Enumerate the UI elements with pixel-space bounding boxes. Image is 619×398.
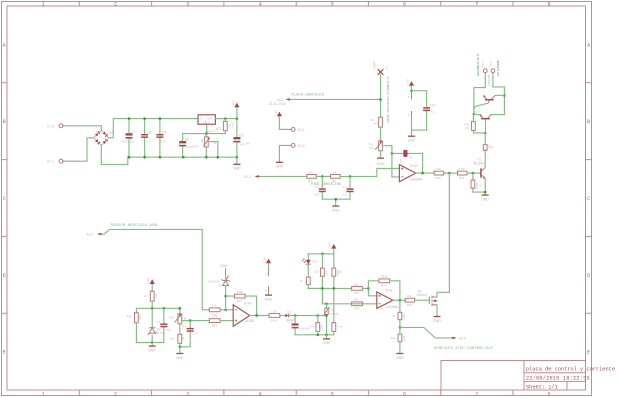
- svg-text:10k: 10k: [332, 170, 337, 174]
- svg-text:GND: GND: [396, 356, 404, 360]
- svg-text:R23: R23: [354, 307, 360, 311]
- svg-text:C12: C12: [429, 104, 435, 108]
- mosfet Q1 VND920: [416, 289, 438, 307]
- trimmer R5 10k sensor: [169, 308, 187, 324]
- capacitor C10: [314, 176, 326, 199]
- title block outline: [441, 361, 586, 391]
- svg-text:R10: R10: [435, 176, 441, 180]
- +12V supply arrow opamp power: [405, 79, 414, 93]
- svg-text:0.1: 0.1: [315, 185, 320, 189]
- transistor T1 BC547: [474, 157, 486, 179]
- resistor R10 2.2k: [434, 167, 444, 180]
- connector pad X1-1: [47, 159, 66, 163]
- junction C8 top: [143, 117, 146, 120]
- junction R7 gnd: [179, 346, 182, 349]
- junction emitter gnd: [484, 191, 487, 194]
- BOTTOMLEFT: [86, 224, 295, 360]
- svg-text:240: 240: [231, 123, 235, 128]
- svg-text:R18: R18: [336, 271, 340, 277]
- svg-text:+12V: +12V: [146, 277, 150, 284]
- capacitor C12 bypass: [412, 91, 436, 130]
- svg-text:E: E: [3, 350, 6, 356]
- svg-text:17k: 17k: [212, 304, 217, 308]
- +12V supply arrow comparator block: [328, 242, 337, 268]
- svg-text:GND: GND: [377, 162, 385, 166]
- wire R3 to R6: [316, 175, 330, 177]
- svg-text:IC2A: IC2A: [410, 164, 418, 168]
- svg-text:VND920: VND920: [416, 293, 428, 297]
- svg-text:Q3: Q3: [476, 110, 480, 114]
- svg-text:22-23-2041: 22-23-2041: [269, 102, 286, 106]
- svg-text:placa de control y corriente: placa de control y corriente: [526, 367, 615, 373]
- svg-text:1k: 1k: [144, 294, 148, 298]
- svg-text:1: 1: [42, 391, 45, 397]
- svg-text:1k: 1k: [478, 184, 482, 188]
- junction mid column top: [321, 253, 324, 256]
- svg-text:R26: R26: [402, 336, 406, 342]
- junction thermistor bottom: [325, 314, 328, 317]
- resistor R16 2.2k: [269, 309, 280, 322]
- led optocoupler left branch: [302, 254, 318, 277]
- junction Q2 collector node: [503, 94, 506, 97]
- series diode on feedback: [392, 150, 423, 163]
- svg-text:X3-1: X3-1: [298, 128, 305, 132]
- svg-text:R12: R12: [459, 176, 465, 180]
- node row from D1: [295, 315, 326, 317]
- wire feedback riser: [368, 281, 379, 289]
- wire R8 to ground: [380, 151, 382, 158]
- junction C9 bottom: [159, 156, 162, 159]
- thermistor KT103: [323, 304, 339, 335]
- wire R7 to R8: [380, 127, 382, 141]
- svg-text:GND: GND: [408, 139, 416, 143]
- wire mosfet drain: [437, 292, 449, 297]
- +12V supply arrow sensor block: [146, 277, 155, 291]
- svg-text:2.2k: 2.2k: [435, 167, 441, 171]
- junction X2-1 tee: [379, 98, 382, 101]
- svg-text:6: 6: [403, 2, 406, 8]
- svg-text:GND: GND: [220, 264, 228, 268]
- wire trimmer wiper row: [182, 320, 210, 322]
- wire R12 to T1 base: [467, 172, 480, 174]
- svg-text:OK1: OK1: [312, 260, 318, 264]
- resistor R19 10k to +input: [352, 282, 363, 295]
- resistor mid divider 10k: [314, 254, 328, 304]
- svg-text:C9: C9: [162, 131, 166, 135]
- op-amp IC2B LM358N: [377, 288, 400, 309]
- resistor R11 220: [465, 122, 476, 131]
- svg-text:R25: R25: [402, 314, 406, 320]
- junction C8 bottom: [143, 156, 146, 159]
- IC2P power pin V-: [408, 111, 412, 118]
- svg-text:10k: 10k: [391, 336, 396, 340]
- wire Q2 collector to right riser: [495, 94, 504, 96]
- junction X2-4 tap: [399, 326, 402, 329]
- wire R4 to sensor rail: [151, 301, 153, 308]
- wire opamp output: [416, 172, 434, 174]
- IC2P power pin V+: [408, 93, 412, 100]
- junction feedback left: [367, 287, 370, 290]
- wire IC1A output: [250, 315, 269, 317]
- svg-text:10u(16): 10u(16): [299, 327, 309, 331]
- capacitor C5 electrolytic: [179, 134, 198, 158]
- ground symbol comparator block: [323, 335, 331, 345]
- junction D1 node: [294, 314, 297, 317]
- transistor Q3 lower PNP: [476, 110, 492, 122]
- junction Q stage bottom: [484, 132, 487, 135]
- wire X5-1 to Q2 emitter: [474, 73, 485, 114]
- junction C10 top: [321, 175, 324, 178]
- svg-text:GND: GND: [323, 341, 331, 345]
- wire Q3 emitter to Q1 node: [474, 114, 480, 116]
- wire X1-1 to bridge left: [66, 138, 94, 161]
- svg-text:10k: 10k: [314, 270, 319, 274]
- TOPRIGHT: [399, 52, 505, 292]
- sensor block top rail: [136, 307, 179, 309]
- svg-text:pide_servicio_aliment.V: pide_servicio_aliment.V: [386, 76, 391, 123]
- svg-text:C8: C8: [147, 131, 151, 135]
- svg-text:0.1: 0.1: [156, 320, 161, 324]
- svg-text:2.2k: 2.2k: [459, 167, 465, 171]
- resistor R15 1.7k: [209, 315, 220, 328]
- wire X2-1 to divider: [291, 98, 381, 100]
- junction TL431 gnd: [151, 341, 154, 344]
- svg-text:+12V: +12V: [273, 109, 277, 116]
- svg-text:A: A: [587, 42, 590, 48]
- wire T1 collector up: [484, 150, 486, 167]
- wire 0V rail: [129, 156, 237, 158]
- svg-text:1N: 1N: [409, 156, 413, 160]
- svg-text:D3: D3: [399, 159, 403, 163]
- MIDDLE: [244, 60, 423, 212]
- svg-text:LM358: LM358: [244, 319, 254, 323]
- resistor right divider 10k: [332, 268, 342, 323]
- svg-text:C6: C6: [239, 134, 243, 138]
- svg-text:B: B: [3, 119, 6, 125]
- TITLEBLOCK: [441, 361, 615, 391]
- wire diode node to opamp output junction: [422, 153, 424, 173]
- svg-text:X2-3: X2-3: [244, 175, 251, 179]
- wire IC2B output: [393, 299, 405, 301]
- svg-text:C16: C16: [218, 284, 224, 288]
- svg-text:GND: GND: [265, 297, 273, 301]
- ground symbol mosfet: [433, 317, 441, 323]
- resistor R7 10k: [370, 117, 382, 127]
- svg-text:Sheet: 1/1: Sheet: 1/1: [526, 384, 558, 390]
- frame row ticks left: [2, 83, 8, 313]
- svg-text:R17: R17: [324, 271, 328, 277]
- svg-text:+12V: +12V: [262, 257, 266, 264]
- junction inverting node: [224, 309, 227, 312]
- connector pin X2-2: [86, 233, 103, 237]
- svg-text:IC4A: IC4A: [244, 302, 252, 306]
- wire zener to feedback node: [225, 286, 227, 310]
- junction C13 rail: [163, 307, 166, 310]
- wire X5-2 to Q2 collector: [491, 73, 504, 115]
- svg-text:C11: C11: [342, 193, 348, 197]
- +12V supply arrow X3: [273, 109, 282, 129]
- wire bridge right to +rail: [109, 119, 129, 138]
- wire R9 top to Q stage: [484, 133, 486, 145]
- junction opamp vcc: [410, 89, 413, 92]
- svg-text:7: 7: [475, 2, 478, 8]
- junction C5 bottom rail: [182, 156, 185, 159]
- op-amp IC1A LM358: [233, 302, 254, 327]
- svg-text:5: 5: [331, 391, 334, 397]
- voltage regulator IC3 LM317: [198, 115, 222, 134]
- svg-text:4.7k: 4.7k: [337, 325, 343, 329]
- svg-text:10k: 10k: [354, 298, 359, 302]
- wire R6 to opamp riser: [340, 169, 399, 177]
- svg-text:vcc pulsante: vcc pulsante: [496, 59, 501, 77]
- capacitor C15 electrolytic: [287, 316, 310, 335]
- svg-text:HERCULES_STEP_CONTROL/OUT: HERCULES_STEP_CONTROL/OUT: [434, 346, 494, 351]
- svg-text:GND: GND: [276, 165, 284, 169]
- wire Q1 base curve: [474, 103, 488, 114]
- resistor R left branch 22k: [127, 308, 153, 342]
- junction bottom rail Ra: [317, 334, 320, 337]
- svg-text:2: 2: [114, 2, 117, 8]
- svg-text:R15: R15: [212, 323, 218, 327]
- resistor R26 10k to ground: [391, 327, 406, 353]
- svg-text:C5: C5: [185, 138, 189, 142]
- ground symbol IC1 power: [265, 293, 273, 302]
- frame column numbers top: [42, 2, 551, 8]
- svg-text:1k: 1k: [491, 146, 495, 150]
- svg-text:BC547: BC547: [474, 161, 484, 165]
- shunt reference D2 TL431: [148, 308, 166, 342]
- diode D1 BAT43: [285, 310, 295, 322]
- svg-text:R7: R7: [374, 122, 378, 126]
- resistor R25 1k below output: [392, 300, 406, 327]
- ground symbol trimmer branch: [176, 347, 184, 360]
- svg-text:D1: D1: [287, 310, 291, 314]
- svg-text:R21: R21: [237, 299, 243, 303]
- resistor R9 collector: [483, 145, 494, 151]
- svg-text:10k: 10k: [308, 170, 313, 174]
- resistor R14 17k: [209, 304, 220, 317]
- wire R2 wiper to rail: [208, 142, 218, 158]
- svg-text:0.1: 0.1: [146, 140, 151, 144]
- svg-text:para base de los tr.: para base de los tr.: [476, 52, 481, 76]
- comparator mid rail: [308, 287, 351, 289]
- wire X2-3 to R3: [259, 175, 306, 177]
- resistor R21 300k feedback: [234, 290, 245, 303]
- svg-text:22k: 22k: [127, 314, 132, 318]
- wire X3-2 to ground: [279, 145, 289, 162]
- wire R16 to D1: [280, 315, 285, 317]
- svg-text:R20: R20: [381, 284, 387, 288]
- wire R10 to R12: [444, 172, 458, 174]
- title block row lines: [524, 373, 586, 390]
- svg-text:C7: C7: [131, 130, 135, 134]
- op-amp IC2A LM358N: [399, 164, 422, 182]
- svg-text:2.2k: 2.2k: [271, 309, 277, 313]
- frame row ticks right: [586, 83, 592, 313]
- svg-text:GND: GND: [233, 167, 241, 171]
- junction rail right corner: [179, 307, 182, 310]
- wire feedback row: [226, 296, 257, 315]
- junction OUT-R1: [224, 117, 227, 120]
- svg-text:10k: 10k: [170, 337, 175, 341]
- resistor R1 240: [223, 119, 234, 134]
- wire T1 emitter to ground: [484, 179, 486, 195]
- svg-text:0.1: 0.1: [343, 185, 348, 189]
- junction output node: [399, 299, 402, 302]
- wire to X2-4: [400, 327, 453, 338]
- BOTTOMCENTER: [287, 242, 494, 360]
- GND net pin above zener: [220, 264, 228, 280]
- wire R15 to noninverting input: [220, 320, 233, 322]
- svg-text:4: 4: [258, 391, 261, 397]
- capacitor C8: [141, 119, 151, 158]
- capacitor C9: [156, 119, 166, 158]
- svg-text:220: 220: [465, 126, 470, 130]
- svg-text:D: D: [3, 273, 6, 279]
- junction R2 bottom: [205, 156, 208, 159]
- trimmer R2: [200, 134, 217, 158]
- svg-text:5: 5: [331, 2, 334, 8]
- comparator bottom rail: [295, 334, 334, 336]
- svg-text:LM358N: LM358N: [386, 305, 399, 309]
- svg-text:KT103: KT103: [330, 312, 339, 316]
- wire R11 top to Q1 node: [472, 114, 474, 122]
- svg-text:560k: 560k: [381, 275, 388, 279]
- junction feedback tee: [224, 295, 227, 298]
- junction mid rail left: [321, 287, 324, 290]
- wire R24 to mosfet gate: [415, 299, 430, 301]
- ground symbol X3: [276, 162, 284, 168]
- resistor R24 10k gate: [405, 294, 415, 307]
- +12V supply arrow at regulator output: [231, 100, 240, 118]
- connector pad X3-1: [289, 127, 305, 132]
- svg-text:1: 1: [42, 2, 45, 8]
- svg-text:SENSOR_HERCULES_AMB: SENSOR_HERCULES_AMB: [111, 224, 158, 228]
- ground symbol below R26: [396, 354, 404, 360]
- svg-text:X2-2: X2-2: [86, 233, 93, 237]
- resistor R6 10k: [331, 170, 341, 183]
- svg-text:ADJ: ADJ: [203, 121, 209, 125]
- resistor R20 560k feedback: [379, 275, 390, 288]
- capacitor C14: [180, 321, 199, 347]
- svg-text:R7: R7: [182, 337, 186, 341]
- svg-text:10k: 10k: [369, 146, 374, 150]
- svg-text:1k: 1k: [392, 314, 396, 318]
- wire +rail: [129, 118, 198, 120]
- wire ADJ row: [183, 133, 226, 135]
- wire feedback to output: [390, 281, 400, 300]
- resistor R12 2.2k: [458, 167, 468, 180]
- junction wiper rail: [217, 156, 220, 159]
- ground symbol sensor block: [148, 343, 156, 353]
- resistor below trimmer 10k: [170, 324, 186, 347]
- svg-text:GND: GND: [481, 197, 489, 201]
- svg-text:X1-1: X1-1: [47, 160, 54, 164]
- svg-text:C14: C14: [193, 332, 199, 336]
- svg-text:PLACA_HERCULES: PLACA_HERCULES: [292, 94, 325, 98]
- svg-text:C13: C13: [166, 328, 172, 332]
- svg-text:GND: GND: [176, 356, 184, 360]
- connector pin X2-4: [451, 336, 466, 340]
- svg-text:0.1: 0.1: [430, 109, 435, 113]
- capacitor C11: [342, 176, 353, 199]
- resistor R13 base-emitter: [471, 173, 485, 192]
- long wire down to mosfet drain: [448, 173, 450, 292]
- junction C7 bottom: [128, 156, 131, 159]
- junction output feedback: [255, 314, 258, 317]
- svg-text:LM358N: LM358N: [410, 178, 423, 182]
- svg-text:1k: 1k: [300, 279, 304, 283]
- svg-text:R5: R5: [138, 316, 142, 320]
- capacitor C7: [122, 119, 135, 158]
- svg-text:1.7k: 1.7k: [212, 315, 218, 319]
- junction wiper node: [391, 152, 394, 155]
- transistor Q2 upper PNP: [477, 95, 495, 109]
- ground symbol opamp power: [408, 130, 416, 142]
- IC1P power pin V-: [265, 287, 269, 293]
- svg-text:0.01: 0.01: [161, 140, 167, 144]
- svg-text:300k: 300k: [236, 290, 243, 294]
- svg-text:10k: 10k: [354, 282, 359, 286]
- svg-text:X5-1: X5-1: [481, 61, 485, 68]
- trimmer R8 10k: [369, 141, 383, 151]
- comparator ref rail: [322, 303, 376, 305]
- capacitor C6 electrolytic: [233, 119, 249, 158]
- svg-text:GND: GND: [332, 208, 340, 212]
- wire ADJ pin down: [206, 128, 208, 134]
- frame column ticks bottom: [79, 390, 513, 396]
- svg-text:3: 3: [186, 2, 189, 8]
- junction Q1 node: [473, 113, 476, 116]
- solder jumper X on divider top: [373, 60, 389, 75]
- svg-text:E: E: [587, 350, 590, 356]
- svg-text:GND: GND: [433, 319, 441, 323]
- svg-text:8: 8: [548, 2, 551, 8]
- svg-text:MBRT: MBRT: [373, 60, 377, 69]
- svg-text:A: A: [3, 42, 6, 48]
- svg-text:+12V: +12V: [231, 100, 235, 107]
- resistor R23 10k to -input: [352, 298, 363, 311]
- +12V supply arrow IC1 power: [262, 257, 271, 271]
- svg-text:D: D: [587, 273, 590, 279]
- wire regulator OUT to +12V node: [215, 118, 237, 120]
- svg-text:2: 2: [114, 391, 117, 397]
- svg-text:R4: R4: [154, 294, 158, 298]
- connector pad X1-2: [47, 124, 66, 128]
- junction ADJ: [205, 132, 208, 135]
- resistor left branch 1k: [300, 277, 323, 288]
- svg-text:IC2B: IC2B: [385, 288, 393, 292]
- svg-text:7: 7: [475, 391, 478, 397]
- svg-text:4: 4: [258, 2, 261, 8]
- svg-text:X5-2: X5-2: [489, 61, 493, 68]
- bridge rectifier B1: [94, 130, 114, 145]
- svg-text:R16: R16: [271, 318, 277, 322]
- IC1P power pin V+: [265, 270, 269, 276]
- junction R4 rail: [151, 307, 154, 310]
- svg-text:B: B: [587, 119, 590, 125]
- connector pin X2-1 (22-23-2041): [269, 98, 292, 106]
- connector pad X3-2: [289, 144, 305, 149]
- ground symbol T1: [481, 195, 489, 201]
- capacitor C13: [152, 308, 171, 342]
- zener diode D4: [208, 276, 231, 288]
- frame column ticks top: [79, 2, 513, 7]
- svg-text:C15: C15: [287, 320, 293, 324]
- frame column numbers bottom: [42, 391, 551, 397]
- svg-text:X1-2: X1-2: [47, 124, 54, 128]
- ground symbol below C10 C11: [332, 206, 340, 212]
